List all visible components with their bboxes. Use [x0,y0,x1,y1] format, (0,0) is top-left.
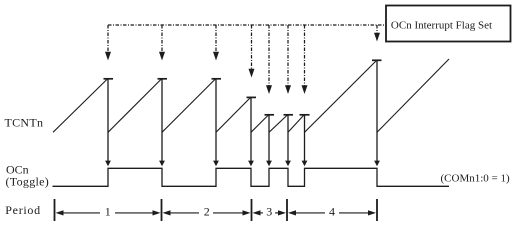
svg-text:OCn Interrupt Flag Set: OCn Interrupt Flag Set [391,19,492,31]
svg-text:TCNTn: TCNTn [5,115,44,129]
svg-text:1: 1 [105,205,111,219]
svg-text:(COMn1:0 = 1): (COMn1:0 = 1) [441,172,510,184]
svg-text:2: 2 [204,205,210,219]
svg-text:4: 4 [329,205,335,219]
svg-text:(Toggle): (Toggle) [6,175,50,189]
svg-text:3: 3 [266,205,272,219]
svg-text:Period: Period [5,203,41,217]
